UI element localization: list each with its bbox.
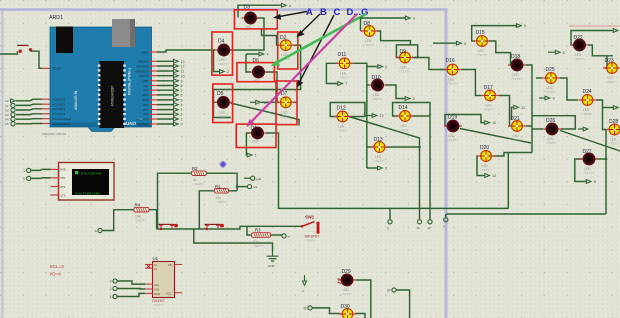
svg-text:D5: D5 <box>217 91 224 97</box>
wire reset button to RESET pin <box>31 51 42 68</box>
wire R2 left branch <box>158 173 192 229</box>
svg-text:ANALOG IN: ANALOG IN <box>74 90 78 110</box>
switch SW1 <box>301 215 320 243</box>
svg-text:5: 5 <box>181 99 183 103</box>
svg-text:D16: D16 <box>446 58 455 64</box>
Arduino analog pin labels + stubs <box>42 67 72 126</box>
LED D30 <box>339 304 357 318</box>
LED D20 <box>477 145 495 172</box>
terminal (right of D11) <box>378 65 383 69</box>
wire terminal to D6 <box>246 53 259 55</box>
wire D20 right loop to junction <box>494 153 532 157</box>
LED D6 <box>250 58 268 78</box>
wire R1 right <box>228 190 237 192</box>
annotation box segment E (D5) <box>213 84 233 123</box>
svg-text:SCL=3: SCL=3 <box>50 264 65 269</box>
terminal st <box>282 234 286 238</box>
svg-text:A4: A4 <box>5 118 9 122</box>
LED D11 <box>336 52 354 79</box>
svg-text:8: 8 <box>413 97 415 101</box>
LED D19 <box>444 115 462 143</box>
svg-text:PD2: PD2 <box>143 113 149 117</box>
wire D27 right to vertical <box>596 158 606 160</box>
svg-text:PC1/ADC1: PC1/ADC1 <box>53 103 66 107</box>
bus border left vertical <box>1 8 3 318</box>
wire D21 right join to vertical <box>526 125 532 127</box>
terminal pair <box>417 220 421 224</box>
svg-text:D28: D28 <box>609 119 618 125</box>
svg-text:D9: D9 <box>400 49 407 55</box>
svg-text:D13: D13 <box>374 137 383 143</box>
svg-text:<TEXT>: <TEXT> <box>153 303 164 307</box>
LED D25 <box>542 67 560 94</box>
svg-text:<TEXT>: <TEXT> <box>609 142 620 146</box>
svg-text:3: 3 <box>385 167 387 171</box>
wire to SW1 <box>300 225 302 227</box>
svg-text:<TEXT>: <TEXT> <box>337 129 348 133</box>
svg-text:<TEXT>: <TEXT> <box>135 219 146 223</box>
annotation arrow green to segment D <box>271 14 367 66</box>
svg-text:D2: D2 <box>280 35 287 41</box>
wire D7 right stub <box>293 101 298 103</box>
svg-text:~PB2/SS: ~PB2/SS <box>138 74 149 78</box>
Arduino board silk texts <box>42 68 143 136</box>
resistor R3 <box>252 228 271 249</box>
wire D12 label loop <box>330 103 365 117</box>
svg-text:LED: LED <box>252 140 259 144</box>
svg-text:12: 12 <box>181 65 185 69</box>
svg-text:<TEXT>: <TEXT> <box>218 62 229 66</box>
svg-text:ARD1: ARD1 <box>49 15 63 21</box>
Arduino USB connector (gray) <box>112 19 135 47</box>
wires terminals to U1 <box>117 281 145 284</box>
wire RX <box>31 169 51 170</box>
svg-text:4: 4 <box>181 103 183 107</box>
wire D3 to D4 chain <box>231 18 265 50</box>
svg-text:<TEXT>: <TEXT> <box>480 168 491 172</box>
svg-text:PD7: PD7 <box>143 89 149 93</box>
LED D5 <box>214 91 232 118</box>
svg-text:<TEXT>: <TEXT> <box>545 90 556 94</box>
svg-text:PB4/MISO: PB4/MISO <box>136 64 148 68</box>
svg-text:9: 9 <box>413 17 415 21</box>
svg-text:0: 0 <box>23 177 25 181</box>
resistor R4 chain <box>98 228 102 232</box>
svg-text:5: 5 <box>464 42 466 46</box>
svg-text:10: 10 <box>181 74 185 78</box>
wire box A to D2 <box>262 29 280 45</box>
svg-text:TXD: TXD <box>60 176 65 180</box>
wire D3 top to terminal <box>238 5 282 17</box>
wire D12 diagonal chain <box>349 117 420 220</box>
wire D20 bottom terminal <box>477 156 484 176</box>
wire D22 left from top <box>571 31 613 46</box>
wire vb terminal down <box>396 290 410 318</box>
wire D27 left loop to terminal <box>575 159 586 182</box>
svg-text:<TEXT>: <TEXT> <box>339 75 350 79</box>
terminal RX circle <box>27 168 31 172</box>
svg-text:PC5/ADC5/SCL: PC5/ADC5/SCL <box>53 122 72 126</box>
svg-text:(TG) 0730-445: (TG) 0730-445 <box>81 172 102 176</box>
terminal 2 (in D4 box) <box>220 70 225 74</box>
svg-text:R1: R1 <box>215 184 221 189</box>
svg-text:<TEXT>: <TEXT> <box>399 128 410 132</box>
svg-text:~PB1: ~PB1 <box>142 79 149 83</box>
terminal left of D28 <box>578 128 583 130</box>
wire D9 label loop <box>396 45 417 58</box>
wire to D7 left <box>261 101 279 103</box>
svg-text:12: 12 <box>380 114 384 118</box>
wire D11 left branch to terminal <box>326 63 338 83</box>
LED D3 <box>242 4 260 23</box>
LED D23 <box>603 58 620 84</box>
wire R3 right <box>271 234 282 236</box>
wire junction down to long wire <box>507 153 509 209</box>
terminal 7 (below D11) <box>338 82 343 86</box>
annotation box segment F (D7) <box>276 81 297 125</box>
svg-text:t5: t5 <box>304 306 307 310</box>
svg-text:2: 2 <box>227 70 229 74</box>
wire R1 left branch <box>199 191 214 229</box>
svg-text:UNO: UNO <box>126 121 137 126</box>
svg-text:R3: R3 <box>255 228 261 233</box>
wire D26 left from long vertical <box>532 128 543 130</box>
svg-text:4: 4 <box>110 295 112 299</box>
svg-text:res: res <box>253 185 258 189</box>
terminal on bus line <box>444 218 448 222</box>
ground symbol <box>267 252 279 269</box>
svg-text:D8: D8 <box>364 21 371 27</box>
svg-text:A1: A1 <box>5 104 9 108</box>
chip U1 DS1307 <box>145 256 182 307</box>
wire chain vertical left of D5 <box>213 90 215 103</box>
svg-text:vb: vb <box>387 289 391 293</box>
svg-text:SCL: SCL <box>154 283 160 287</box>
svg-text:D10: D10 <box>372 75 381 81</box>
terminal above D28 <box>613 106 618 110</box>
svg-text:PC4/ADC4/SDA: PC4/ADC4/SDA <box>53 117 72 121</box>
annotation arrow to segment A <box>273 12 307 20</box>
svg-text:~PD6: ~PD6 <box>142 93 149 97</box>
svg-text:A2: A2 <box>5 108 9 112</box>
bus border right vertical <box>445 8 448 318</box>
Arduino power jack (black) <box>56 27 73 54</box>
svg-text:RTS: RTS <box>60 185 66 189</box>
wire D16 right to D17 <box>461 70 481 96</box>
svg-text:D12: D12 <box>337 106 346 112</box>
terminal end of segment wire <box>388 220 392 224</box>
LED D28 <box>606 119 620 146</box>
svg-text:a: a <box>289 4 291 8</box>
svg-text:<TEXT>: <TEXT> <box>546 141 557 145</box>
LED D12 <box>334 106 352 133</box>
wire D10 left stub <box>367 84 369 86</box>
svg-text:a: a <box>95 229 97 233</box>
svg-text:D4: D4 <box>218 39 225 45</box>
pin terminal down arrow <box>302 275 306 293</box>
terminal TX circle <box>27 176 31 180</box>
LED D7 <box>277 91 295 119</box>
LED D1 <box>249 126 267 139</box>
wire D26 right loop <box>532 116 575 129</box>
svg-text:D30: D30 <box>341 304 350 310</box>
wire D8 to D9 <box>377 31 410 45</box>
LED D24 <box>579 89 597 116</box>
svg-text:<TEXT>: <TEXT> <box>215 200 226 204</box>
svg-text:7: 7 <box>345 82 347 86</box>
svg-text:X2: X2 <box>154 267 158 271</box>
svg-text:1: 1 <box>23 169 25 173</box>
svg-text:D17: D17 <box>484 85 493 91</box>
terminal left of D24 <box>539 97 545 99</box>
svg-text:D19: D19 <box>448 115 457 121</box>
wire TX <box>31 177 51 180</box>
svg-text:PC2/ADC2: PC2/ADC2 <box>53 107 66 111</box>
svg-text:<TEXT>: <TEXT> <box>582 112 593 116</box>
svg-text:<TEXT>: <TEXT> <box>447 82 458 86</box>
svg-text:D14: D14 <box>399 105 408 111</box>
svg-text:PD4: PD4 <box>143 103 149 107</box>
push button 2 <box>205 224 224 230</box>
wire D8 top loop to terminal <box>361 18 406 31</box>
svg-text:D1: D1 <box>251 126 258 132</box>
highlighted net wire (pink) <box>569 25 620 27</box>
svg-text:R4: R4 <box>135 203 141 208</box>
wire D30 right <box>355 314 365 318</box>
LED D18 <box>508 54 526 81</box>
wire AREF to D4 row <box>157 50 215 52</box>
resistor R2 <box>192 166 207 186</box>
digital pin terminals <box>174 59 185 126</box>
wire D10 to terminal 8 <box>386 85 405 99</box>
wire B left drop to terminal <box>445 214 447 218</box>
wire R4 right down to button row <box>149 210 157 229</box>
resistor R4 <box>134 203 149 223</box>
svg-text:D27: D27 <box>583 149 592 155</box>
svg-text:3: 3 <box>181 108 183 112</box>
wire to terminal left of D15 <box>433 42 456 44</box>
svg-text:D20: D20 <box>480 145 489 151</box>
wire D1 right long run to bottom <box>266 133 508 208</box>
terminal 9 (top) <box>406 16 411 20</box>
svg-text:<TEXT>: <TEXT> <box>374 159 385 163</box>
terminal a (top) <box>282 3 287 7</box>
svg-text:<TEXT>: <TEXT> <box>511 77 522 81</box>
svg-text:CTS: CTS <box>60 193 66 197</box>
crystal marks at U1 <box>147 265 151 269</box>
wire D9 right to D16 <box>414 58 446 70</box>
svg-text:D29: D29 <box>342 269 351 275</box>
LED D21 <box>508 116 526 142</box>
wire D15 top loop <box>472 26 516 41</box>
bus border top <box>0 8 447 11</box>
terminal 1 (below D1) <box>247 153 252 157</box>
svg-text:LED: LED <box>246 25 253 29</box>
terminal res <box>247 185 251 189</box>
wire D1 left to terminal <box>246 133 251 155</box>
annotation box segment C (D2) <box>278 32 298 69</box>
virtual terminal display <box>51 163 115 201</box>
wire D18 chain down (long vertical) <box>526 65 532 153</box>
svg-text:9: 9 <box>181 79 183 83</box>
terminal t5 circle <box>308 306 312 310</box>
LED D10 <box>369 75 387 101</box>
svg-text:A5: A5 <box>5 122 9 126</box>
wire D16 left stub <box>440 69 444 71</box>
svg-text:4: 4 <box>267 53 269 57</box>
svg-text:PD1/TXD: PD1/TXD <box>138 117 149 121</box>
svg-text:DIGITAL (PWM~): DIGITAL (PWM~) <box>128 68 132 95</box>
LED D8 <box>361 21 379 47</box>
annotation box segment B (D4) <box>212 32 233 75</box>
LED D14 <box>396 105 414 132</box>
svg-text:A3: A3 <box>5 113 9 117</box>
svg-text:SDA: SDA <box>154 288 160 292</box>
svg-text:R2: R2 <box>192 166 198 171</box>
svg-text:13: 13 <box>181 60 185 64</box>
svg-text:D18: D18 <box>511 54 520 60</box>
LED D27 <box>580 149 598 175</box>
svg-text:<TEXT>: <TEXT> <box>583 171 594 175</box>
terminal vb circle <box>392 288 396 292</box>
terminal 12 (right of D12 loop) <box>365 115 372 117</box>
svg-text:9: 9 <box>553 97 555 101</box>
svg-text:2: 2 <box>181 113 183 117</box>
svg-text:U1: U1 <box>153 256 159 261</box>
svg-text:1: 1 <box>255 154 257 158</box>
svg-text:RESET: RESET <box>53 67 62 71</box>
push button 1 <box>159 224 178 230</box>
svg-text:3: 3 <box>110 280 112 284</box>
button row wire <box>157 226 302 229</box>
diagonal wire D19 to D20 column <box>460 129 531 144</box>
wire branch down to terminal <box>389 208 391 219</box>
Arduino digital pin labels + stubs <box>135 50 157 126</box>
LED D17 <box>481 85 499 111</box>
svg-text:<TEXT>: <TEXT> <box>447 138 458 142</box>
terminal 10 (right of D5) <box>250 101 256 103</box>
svg-text:SW1: SW1 <box>305 215 315 220</box>
svg-text:<TEXT>: <TEXT> <box>484 108 495 112</box>
wire D19 loop to terminal <box>445 115 484 127</box>
svg-text:gnd: gnd <box>256 177 261 181</box>
svg-text:X1: X1 <box>154 263 158 267</box>
svg-text:ATMEGA328P: ATMEGA328P <box>111 86 115 107</box>
annotation box segment A (D3) <box>234 10 277 29</box>
red emission arrows D29 <box>338 279 342 284</box>
svg-text:2: 2 <box>110 287 112 291</box>
svg-text:<TEXT>: <TEXT> <box>280 114 291 118</box>
svg-text:RXD: RXD <box>60 168 66 172</box>
terminal 6 (left of D22) <box>548 51 555 53</box>
terminal 9b <box>517 24 522 28</box>
svg-text:<TEXT>: <TEXT> <box>305 239 316 243</box>
svg-text:<TEXT>: <TEXT> <box>511 138 522 142</box>
vertical wire right column <box>605 130 607 215</box>
Arduino MCU DIP chip <box>98 61 126 128</box>
svg-text:PD0/RXD: PD0/RXD <box>137 122 148 126</box>
wire D25 left stub <box>536 77 542 79</box>
LED D29 <box>338 269 356 296</box>
reset push button <box>17 45 32 53</box>
wire junction to terminal <box>237 186 247 188</box>
svg-text:11: 11 <box>521 106 525 110</box>
wires analog terminals to board <box>16 99 42 124</box>
svg-text:s1: s1 <box>417 226 421 230</box>
terminal top right <box>613 29 618 33</box>
svg-text:<TEXT>: <TEXT> <box>217 114 228 118</box>
svg-text:A0: A0 <box>5 99 9 103</box>
terminal gnd stub <box>244 177 251 179</box>
wire D6 left branch <box>246 54 251 72</box>
long wire B (y=214) <box>447 213 607 215</box>
wire D29 right down <box>356 280 371 318</box>
svg-text:st: st <box>288 235 291 239</box>
wire D25 right to D24 <box>560 78 578 100</box>
wire to GND branch <box>194 229 273 252</box>
wire D17 right down to D21 <box>499 96 511 127</box>
terminal circles to U1 <box>113 279 117 283</box>
LED D26 <box>543 118 561 145</box>
svg-text:<TEXT>: <TEXT> <box>253 244 264 248</box>
wire D22 right to D23 loop <box>588 45 613 56</box>
svg-text:D15: D15 <box>476 30 485 36</box>
svg-text:PC3/ADC3: PC3/ADC3 <box>53 112 66 116</box>
diagonal wire D26 to D27 column <box>560 131 620 152</box>
wire D14 label loop and long drop <box>393 103 430 220</box>
svg-text:D11: D11 <box>338 52 347 58</box>
svg-text:9: 9 <box>524 24 526 28</box>
wire D4 terminal branch <box>214 50 220 72</box>
svg-text:s2: s2 <box>428 226 432 230</box>
wire D11 right to junction <box>352 63 378 66</box>
annotation arrow to segment F <box>297 15 335 88</box>
wire left edge to reset button <box>0 51 18 54</box>
LED D15 <box>473 30 491 57</box>
origin marker (blue) <box>219 161 226 168</box>
junction dot <box>236 185 239 188</box>
svg-text:~PD5: ~PD5 <box>142 98 149 102</box>
svg-text:D23: D23 <box>605 58 614 64</box>
svg-text:ARDUINO UNO R3: ARDUINO UNO R3 <box>42 132 67 136</box>
svg-text:VCC: VCC <box>166 291 172 295</box>
annotation box segment D (D6) <box>237 63 274 82</box>
resistor R1 <box>214 184 228 204</box>
svg-text:11: 11 <box>181 70 185 74</box>
wire D13 right to vertical <box>386 146 420 148</box>
svg-text:D24: D24 <box>583 89 592 95</box>
wire R2 right to junction <box>206 173 237 191</box>
wire D2 right down to chain <box>214 45 301 89</box>
wire D5 right diagonal <box>231 103 300 126</box>
svg-text:VB: VB <box>168 263 172 267</box>
LED D16 <box>444 58 462 85</box>
annotation arrow to segment C <box>296 14 320 37</box>
Arduino module ARD1 <box>49 15 152 132</box>
svg-text:<TEXT>: <TEXT> <box>372 97 383 101</box>
wire D6 right down <box>265 72 278 102</box>
annotation arrow magenta to segment G <box>246 14 357 127</box>
wires digital pins to terminals <box>157 61 174 124</box>
svg-text:<TEXT>: <TEXT> <box>574 57 585 61</box>
svg-text:8: 8 <box>594 180 596 184</box>
wire D21 top terminal <box>512 107 514 120</box>
svg-text:6: 6 <box>563 51 565 55</box>
svg-text:PB5/SCK: PB5/SCK <box>138 60 149 64</box>
annotation box segment G (D1) <box>236 124 276 147</box>
wire D24 right to D28 loop <box>596 100 606 130</box>
svg-text:<TEXT>: <TEXT> <box>193 182 204 186</box>
